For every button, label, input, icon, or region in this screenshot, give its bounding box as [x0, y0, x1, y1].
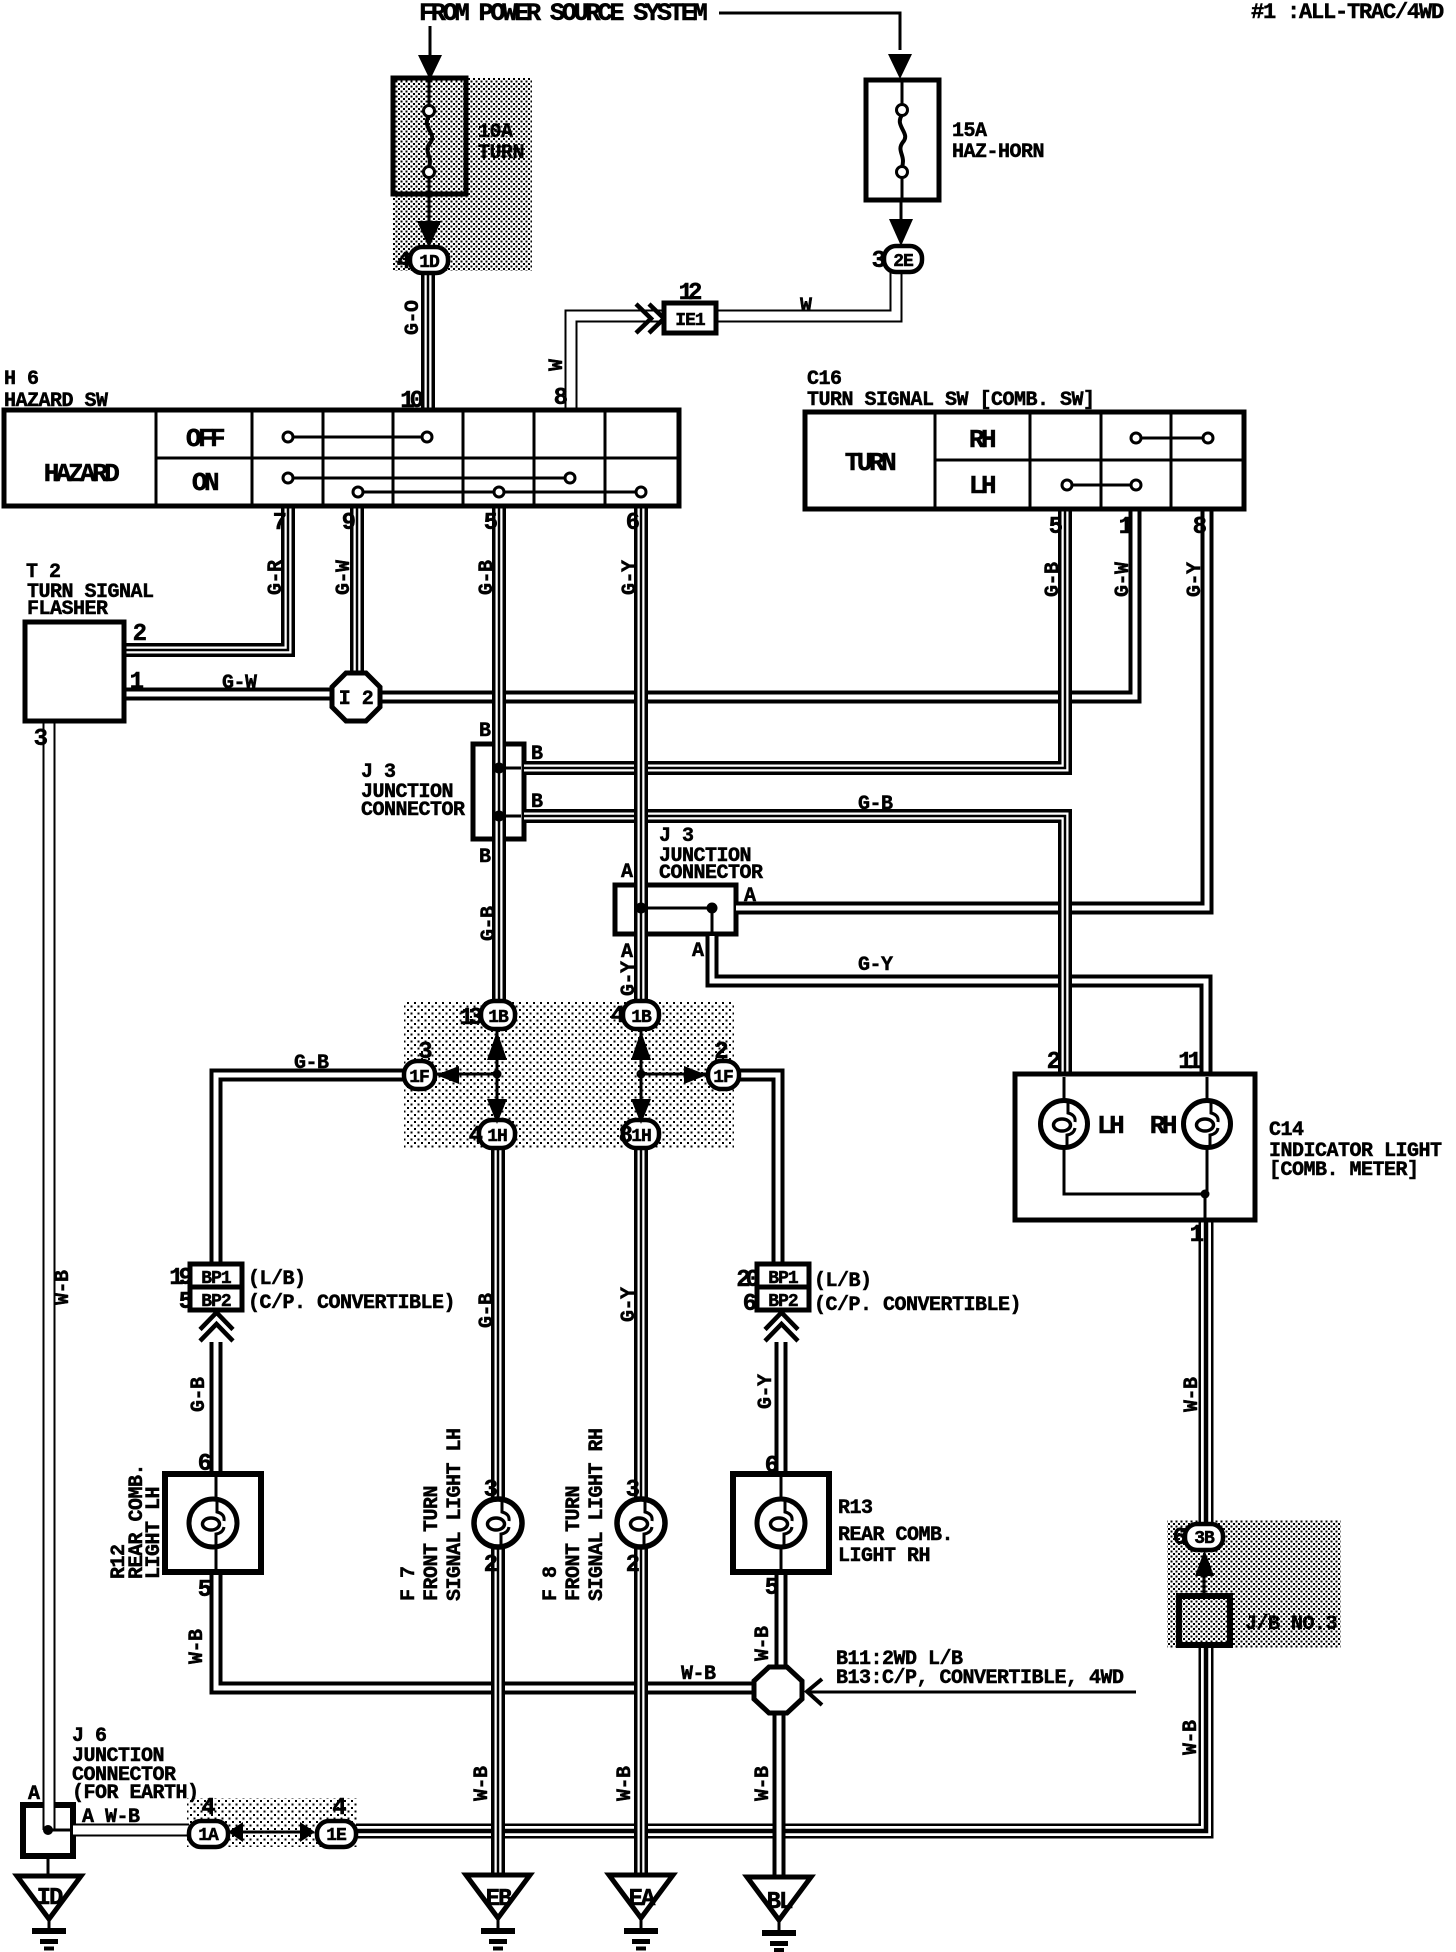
- svg-text:HAZ-HORN: HAZ-HORN: [952, 141, 1044, 164]
- arrow into connector 2E: [900, 200, 903, 222]
- junction connector J3 (lower) internals: [636, 903, 647, 914]
- connector 1B (left): [481, 1001, 515, 1029]
- svg-text:FRONT TURN: FRONT TURN: [563, 1486, 586, 1601]
- svg-text:HAZARD: HAZARD: [44, 459, 120, 489]
- connector 1F (left): [404, 1061, 435, 1089]
- hazard switch H6 box: [4, 410, 679, 506]
- wire G-B from connector 1H to front turn signal light LH pin 3: [491, 1148, 505, 1499]
- wire W-B from indicator light pin 1 to connector 3B: [1199, 1220, 1214, 1524]
- svg-text:1F: 1F: [409, 1068, 429, 1088]
- svg-text:W-B: W-B: [681, 1663, 716, 1686]
- svg-text:G-B: G-B: [478, 906, 501, 941]
- svg-text:IE1: IE1: [675, 311, 706, 331]
- svg-text:R13: R13: [838, 1497, 873, 1520]
- svg-text:3B: 3B: [1194, 1529, 1215, 1549]
- svg-text:REAR COMB.: REAR COMB.: [838, 1524, 953, 1547]
- svg-text:2E: 2E: [893, 252, 914, 272]
- svg-text:TURN: TURN: [845, 448, 895, 478]
- svg-text:C16: C16: [807, 368, 842, 391]
- svg-text:W: W: [800, 295, 812, 318]
- wire W-B from front turn signal light LH pin 2 to ground EB: [491, 1547, 505, 1875]
- svg-text:[COMB. METER]: [COMB. METER]: [1269, 1159, 1419, 1182]
- svg-text:BP1: BP1: [201, 1269, 232, 1289]
- J/B NO.3 box: [1179, 1596, 1230, 1645]
- connector 1A: [189, 1821, 228, 1847]
- junction connector J3 (upper) box: [473, 744, 524, 839]
- svg-text:15A: 15A: [952, 120, 987, 143]
- ground BL: [747, 1877, 811, 1920]
- svg-text:G-B: G-B: [1042, 562, 1065, 597]
- junction connector J3 (lower) box: [615, 885, 736, 934]
- svg-text:W-B: W-B: [1181, 1377, 1204, 1412]
- svg-text:W-B: W-B: [186, 1629, 209, 1664]
- wire G-B from junction connector J3 to turn signal switch pin 5: [524, 509, 1065, 768]
- wire G-Y from hazard switch pin 6 through J3 to connector 1B: [634, 506, 648, 1001]
- connector BP2 (left): [190, 1287, 242, 1310]
- svg-text:G-W: G-W: [1112, 562, 1135, 597]
- svg-text:TURN SIGNAL SW [COMB. SW]: TURN SIGNAL SW [COMB. SW]: [807, 389, 1095, 412]
- wire W from fuse 15A connector 2E to IE1: [716, 270, 896, 316]
- svg-text:G-Y: G-Y: [858, 954, 893, 977]
- connector BP2 (right): [757, 1287, 809, 1310]
- bulb R12: [189, 1499, 237, 1547]
- wire G-Y from junction connector J3 to turn signal switch pin 8: [736, 509, 1207, 908]
- wire W-B from junction B to ground BL: [773, 1713, 786, 1877]
- svg-text:RH: RH: [1150, 1111, 1176, 1141]
- svg-text:(L/B): (L/B): [814, 1270, 872, 1293]
- wire W from IE1 to hazard switch pin 8: [571, 316, 664, 412]
- hatch region around fuse 10A: [393, 78, 532, 271]
- wire G-B from junction connector J3 to indicator light pin 2: [524, 816, 1065, 1074]
- svg-text:CONNECTOR: CONNECTOR: [361, 799, 465, 822]
- svg-text:BP2: BP2: [768, 1292, 798, 1312]
- wire G-O from connector 1D to hazard switch pin 10: [421, 272, 435, 410]
- connector BP1 (left): [190, 1264, 242, 1287]
- wire W-B from rear comb. light LH pin 5 to junction B: [216, 1572, 754, 1688]
- svg-text:H 6: H 6: [4, 368, 39, 391]
- wire W-B from flasher pin 3 to junction connector J6: [43, 721, 56, 1830]
- rear comb. light RH R13 box: [733, 1474, 829, 1572]
- svg-text:1B: 1B: [488, 1008, 509, 1028]
- svg-text:A: A: [28, 1783, 40, 1806]
- svg-text:BP1: BP1: [768, 1269, 799, 1289]
- svg-text:W-B: W-B: [614, 1766, 637, 1801]
- arrow into connector 1E: [300, 1822, 315, 1842]
- front turn signal light RH F8 bulb: [617, 1499, 665, 1547]
- wire G-W from I2 to turn signal switch pin 1: [380, 509, 1135, 697]
- svg-text:(C/P. CONVERTIBLE): (C/P. CONVERTIBLE): [248, 1292, 455, 1315]
- svg-text:G-Y: G-Y: [618, 1287, 641, 1322]
- svg-text:10A: 10A: [478, 121, 513, 144]
- connector 2E: [884, 246, 922, 272]
- connector lines and arrows (left cluster): [435, 1029, 497, 1120]
- svg-text:1E: 1E: [326, 1826, 347, 1846]
- connector 1H (left): [479, 1120, 515, 1148]
- svg-text:LH: LH: [969, 471, 995, 501]
- svg-text:(FOR EARTH): (FOR EARTH): [72, 1782, 199, 1805]
- svg-text:CONNECTOR: CONNECTOR: [659, 862, 763, 885]
- wire W-B from J/B NO.3 to connector 1E: [356, 1645, 1206, 1831]
- svg-text:ID: ID: [37, 1885, 63, 1912]
- turn signal switch LH contact: [1072, 484, 1131, 487]
- svg-text:EA: EA: [629, 1886, 656, 1913]
- hazard switch OFF contact: [293, 436, 422, 439]
- wire G-Y from junction connector J3 to indicator light pin 11: [712, 936, 1206, 1074]
- svg-text:LIGHT LH: LIGHT LH: [143, 1487, 166, 1579]
- rear comb. light LH R12 box: [165, 1474, 261, 1572]
- chevron arrow below BP2 (right): [765, 1324, 798, 1341]
- chevron arrow below BP2 (left): [200, 1324, 233, 1341]
- svg-text:G-B: G-B: [476, 560, 499, 595]
- svg-text:B: B: [479, 846, 491, 869]
- ground EA: [609, 1875, 673, 1918]
- svg-text:J/B NO.3: J/B NO.3: [1245, 1613, 1337, 1636]
- wire G-R from hazard switch pin 7 to flasher pin 2: [124, 506, 288, 650]
- indicator bulb LH: [1041, 1101, 1088, 1148]
- svg-text:G-W: G-W: [333, 560, 356, 595]
- svg-text:1A: 1A: [198, 1826, 219, 1846]
- svg-text:B13:C/P, CONVERTIBLE, 4WD: B13:C/P, CONVERTIBLE, 4WD: [836, 1667, 1124, 1690]
- connector 1F (right): [708, 1061, 739, 1089]
- svg-text:FROM POWER SOURCE SYSTEM: FROM POWER SOURCE SYSTEM: [419, 0, 707, 28]
- wire G-Y from BP2 to rear comb. light RH pin 6: [775, 1342, 788, 1474]
- svg-text:W-B: W-B: [752, 1766, 775, 1801]
- svg-text:W: W: [546, 359, 569, 371]
- svg-text:(L/B): (L/B): [248, 1268, 306, 1291]
- svg-text:G-Y: G-Y: [618, 961, 641, 996]
- connector 12 IE1 box: [664, 303, 716, 333]
- svg-text:LH: LH: [1097, 1111, 1123, 1141]
- svg-text:RH: RH: [969, 425, 995, 455]
- wire G-Y from connector 1H to front turn signal light RH pin 3: [634, 1148, 648, 1499]
- svg-text:G-Y: G-Y: [619, 560, 642, 595]
- ground EB: [466, 1875, 530, 1918]
- svg-text:G-B: G-B: [188, 1377, 211, 1412]
- arrow pointing to junction B (B11/B13 note): [806, 1691, 1136, 1694]
- wire G-B from BP2 to rear comb. light LH pin 6: [210, 1342, 223, 1474]
- arrow into connector 1D: [428, 194, 431, 224]
- junction connector J3 (upper) internals: [494, 763, 505, 774]
- svg-text:W-B: W-B: [1180, 1720, 1203, 1755]
- wire from power source system to fuses: [719, 13, 900, 50]
- svg-text:LIGHT RH: LIGHT RH: [838, 1545, 930, 1568]
- svg-text:F 7: F 7: [398, 1566, 421, 1601]
- svg-text:G-O: G-O: [402, 300, 425, 335]
- svg-text:A: A: [692, 940, 704, 963]
- svg-text:B: B: [531, 743, 543, 766]
- connector 12 IE1 chevrons: [636, 304, 651, 333]
- turn signal switch RH contact: [1141, 437, 1203, 440]
- connector 1D: [410, 247, 448, 273]
- wire G-B from hazard switch pin 5 through J3 to connector 1B: [492, 506, 506, 1001]
- svg-text:BP2: BP2: [201, 1292, 231, 1312]
- svg-text:A W-B: A W-B: [82, 1806, 140, 1829]
- arrow into fuse 15A: [888, 54, 912, 79]
- svg-text:1H: 1H: [631, 1127, 651, 1147]
- svg-text:A: A: [621, 861, 633, 884]
- svg-text:1B: 1B: [631, 1008, 652, 1028]
- hatch region around 3B / J/B NO.3: [1167, 1520, 1341, 1648]
- svg-text:G-Y: G-Y: [1184, 562, 1207, 597]
- turn signal switch C16 box: [805, 412, 1244, 509]
- svg-text:B: B: [531, 791, 543, 814]
- junction connector J6 internals: [43, 1825, 53, 1835]
- wire W-B from junction connector J6 to connector 1A: [73, 1824, 189, 1837]
- hatch region around connectors 1A/1E: [187, 1798, 358, 1847]
- svg-text:W-B: W-B: [752, 1626, 775, 1661]
- svg-text:FLASHER: FLASHER: [27, 598, 108, 621]
- wire G-W from hazard switch pin 9 to I2: [350, 506, 364, 673]
- junction B octagon: [754, 1667, 802, 1713]
- svg-text:G-R: G-R: [265, 560, 288, 595]
- bulb R13: [757, 1499, 805, 1547]
- svg-text:OFF: OFF: [186, 424, 225, 454]
- connector I2 octagon: [332, 673, 380, 721]
- arrow into connector 1A: [228, 1822, 243, 1842]
- svg-text:A: A: [621, 941, 633, 964]
- arrow into fuse 10A: [418, 55, 442, 80]
- turn signal flasher T2 box: [25, 622, 124, 721]
- svg-text:W-B: W-B: [52, 1270, 75, 1305]
- svg-text:ON: ON: [192, 468, 218, 498]
- svg-text:G-W: G-W: [222, 672, 257, 695]
- ground ID: [17, 1876, 81, 1919]
- svg-text:1D: 1D: [419, 253, 440, 273]
- indicator bulb RH: [1184, 1101, 1231, 1148]
- hazard switch ON contacts: [293, 477, 565, 480]
- connector BP1 (right): [757, 1264, 809, 1287]
- fuse 15A HAZ-HORN: [866, 80, 939, 200]
- svg-text:B: B: [479, 720, 491, 743]
- wire G-B from connector 1F to connector BP1/BP2 (left): [216, 1075, 404, 1264]
- svg-text:A: A: [744, 885, 756, 908]
- svg-text:W-B: W-B: [471, 1766, 494, 1801]
- connector lines and arrows (right cluster): [641, 1029, 708, 1120]
- junction connector J6 box: [23, 1805, 73, 1856]
- svg-text:EB: EB: [486, 1886, 512, 1913]
- svg-text:HAZARD SW: HAZARD SW: [4, 390, 108, 413]
- connector 1E: [317, 1821, 356, 1847]
- indicator light C14 box: [1015, 1074, 1255, 1220]
- svg-text:FRONT TURN: FRONT TURN: [421, 1486, 444, 1601]
- wire G-Y from connector 1F to connector BP1/BP2 (right): [739, 1075, 778, 1264]
- svg-text:SIGNAL LIGHT RH: SIGNAL LIGHT RH: [586, 1428, 609, 1601]
- svg-text:SIGNAL LIGHT LH: SIGNAL LIGHT LH: [444, 1428, 467, 1601]
- svg-text:G-Y: G-Y: [755, 1374, 778, 1409]
- svg-text:G-B: G-B: [858, 793, 893, 816]
- wire W-B from rear comb. light RH pin 5 to junction B: [775, 1572, 788, 1667]
- svg-text:TURN: TURN: [478, 142, 524, 165]
- svg-text:1H: 1H: [487, 1127, 507, 1147]
- svg-text:I 2: I 2: [339, 688, 374, 711]
- connector 3B: [1195, 1550, 1214, 1576]
- wire W-B from front turn signal light RH pin 2 to ground EA: [634, 1547, 648, 1875]
- svg-text:G-B: G-B: [476, 1293, 499, 1328]
- front turn signal light LH F7 bulb: [474, 1499, 522, 1547]
- svg-text:G-B: G-B: [294, 1052, 329, 1075]
- hatch region around connectors 1B/1F/1H: [404, 1001, 734, 1148]
- connector 1B (right): [623, 1001, 659, 1029]
- svg-text:(C/P. CONVERTIBLE): (C/P. CONVERTIBLE): [814, 1294, 1021, 1317]
- fuse 10A TURN: [393, 78, 466, 194]
- svg-text:BL: BL: [767, 1889, 793, 1916]
- svg-text:C14: C14: [1269, 1119, 1304, 1142]
- connector 1H (right): [623, 1120, 659, 1148]
- svg-text:#1 :ALL-TRAC/4WD: #1 :ALL-TRAC/4WD: [1251, 0, 1444, 25]
- wire G-W from flasher pin 1 to I2: [124, 688, 332, 701]
- svg-text:1F: 1F: [713, 1068, 733, 1088]
- svg-text:F 8: F 8: [540, 1566, 563, 1601]
